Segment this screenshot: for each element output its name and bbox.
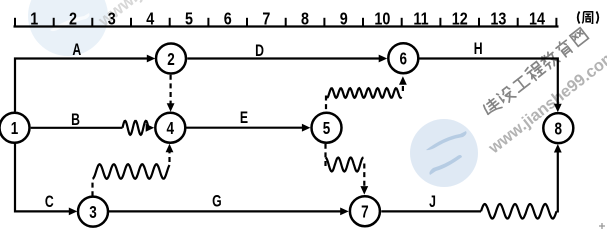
svg-text:7: 7: [361, 203, 369, 222]
svg-text:B: B: [71, 111, 80, 129]
svg-text:C: C: [45, 193, 54, 211]
svg-text:10: 10: [374, 10, 390, 29]
svg-text:6: 6: [400, 50, 408, 69]
svg-text:9: 9: [340, 10, 348, 29]
svg-text:E: E: [240, 109, 248, 127]
svg-text:1: 1: [11, 119, 19, 138]
svg-text:5: 5: [323, 119, 331, 138]
svg-text:14: 14: [529, 10, 545, 29]
svg-text:8: 8: [301, 10, 309, 29]
svg-text:11: 11: [413, 10, 428, 29]
svg-text:G: G: [212, 193, 222, 211]
svg-text:2: 2: [69, 10, 77, 29]
svg-text:J: J: [429, 193, 436, 211]
svg-text:A: A: [72, 41, 81, 59]
svg-text:3: 3: [89, 203, 97, 222]
svg-text:5: 5: [185, 10, 193, 29]
svg-text:8: 8: [555, 120, 563, 139]
svg-text:7: 7: [262, 10, 270, 29]
svg-text:2: 2: [167, 50, 175, 69]
svg-text:12: 12: [452, 10, 468, 29]
svg-text:3: 3: [108, 10, 116, 29]
svg-text:4: 4: [146, 10, 154, 29]
svg-text:1: 1: [30, 10, 38, 29]
svg-text:H: H: [474, 40, 483, 58]
svg-text:6: 6: [224, 10, 232, 29]
svg-text:D: D: [255, 42, 264, 60]
svg-text:13: 13: [490, 10, 506, 29]
svg-text:4: 4: [167, 119, 175, 138]
